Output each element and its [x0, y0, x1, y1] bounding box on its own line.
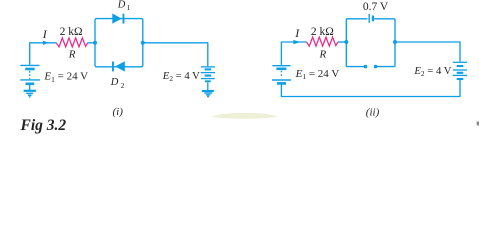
svg-text:2 kΩ: 2 kΩ	[60, 26, 83, 38]
wire: E1 top to resistor (circuit i)	[30, 43, 57, 65]
equivalent box top branch with 0.7V cell (circuit ii)	[346, 19, 395, 42]
battery E1 24V (circuit ii)	[272, 66, 291, 84]
resistor R 2k (circuit ii)	[307, 37, 338, 46]
battery E2 4V (circuit i)	[201, 67, 215, 90]
node A junction dot (circuit i)	[93, 41, 97, 45]
svg-text:Fig 3.2: Fig 3.2	[20, 117, 67, 134]
svg-text:E2 = 4 V: E2 = 4 V	[413, 65, 451, 78]
svg-text:2: 2	[121, 81, 125, 90]
svg-text:0.7 V: 0.7 V	[363, 1, 389, 13]
page speck at right edge	[477, 122, 479, 127]
resistor R 2k (circuit i)	[56, 38, 87, 47]
wire: resistor to node A (circuit i)	[88, 42, 96, 44]
svg-text:2 kΩ: 2 kΩ	[311, 26, 334, 38]
svg-text:R: R	[68, 49, 76, 61]
svg-text:(i): (i)	[113, 106, 124, 118]
svg-text:1: 1	[127, 3, 131, 12]
diode D1 (circuit i)	[112, 13, 124, 23]
svg-text:E2 = 4 V: E2 = 4 V	[162, 70, 200, 83]
0.7V cell plates (circuit ii)	[368, 14, 370, 23]
wire: node D to E2 (circuit ii)	[395, 42, 460, 62]
wire: E1 top to resistor (circuit ii)	[281, 42, 306, 65]
battery E1 24V (circuit i)	[20, 65, 40, 90]
ground under E1 (circuit i)	[24, 91, 36, 97]
diode bridge box (circuit i)	[95, 19, 143, 67]
ground under E2 (circuit i)	[202, 91, 214, 97]
diode D2 (circuit i)	[112, 61, 125, 71]
svg-text:R: R	[319, 49, 327, 61]
battery E2 4V (circuit ii)	[453, 62, 467, 79]
wire: E1 bottom return (circuit ii)	[281, 80, 460, 97]
decorative swoosh	[211, 113, 278, 119]
svg-text:D: D	[117, 0, 126, 11]
node B junction dot (circuit i)	[141, 41, 145, 45]
open contact dot left (circuit ii)	[364, 65, 368, 69]
equivalent box bottom branch with open contacts (circuit ii)	[346, 42, 395, 67]
current arrow I (circuit ii)	[293, 40, 300, 44]
svg-text:E1 = 24 V: E1 = 24 V	[295, 68, 340, 81]
current arrow I (circuit i)	[43, 41, 49, 45]
svg-text:(ii): (ii)	[366, 106, 380, 118]
node C junction dot (circuit ii)	[344, 40, 348, 44]
svg-text:D: D	[110, 77, 119, 88]
open contact dot right (circuit ii)	[374, 65, 378, 69]
node D junction dot (circuit ii)	[393, 40, 397, 44]
wire: node B to E2 (circuit i)	[143, 43, 208, 67]
svg-text:E1 = 24 V: E1 = 24 V	[43, 71, 88, 84]
wire: resistor to node C (circuit ii)	[338, 41, 347, 43]
